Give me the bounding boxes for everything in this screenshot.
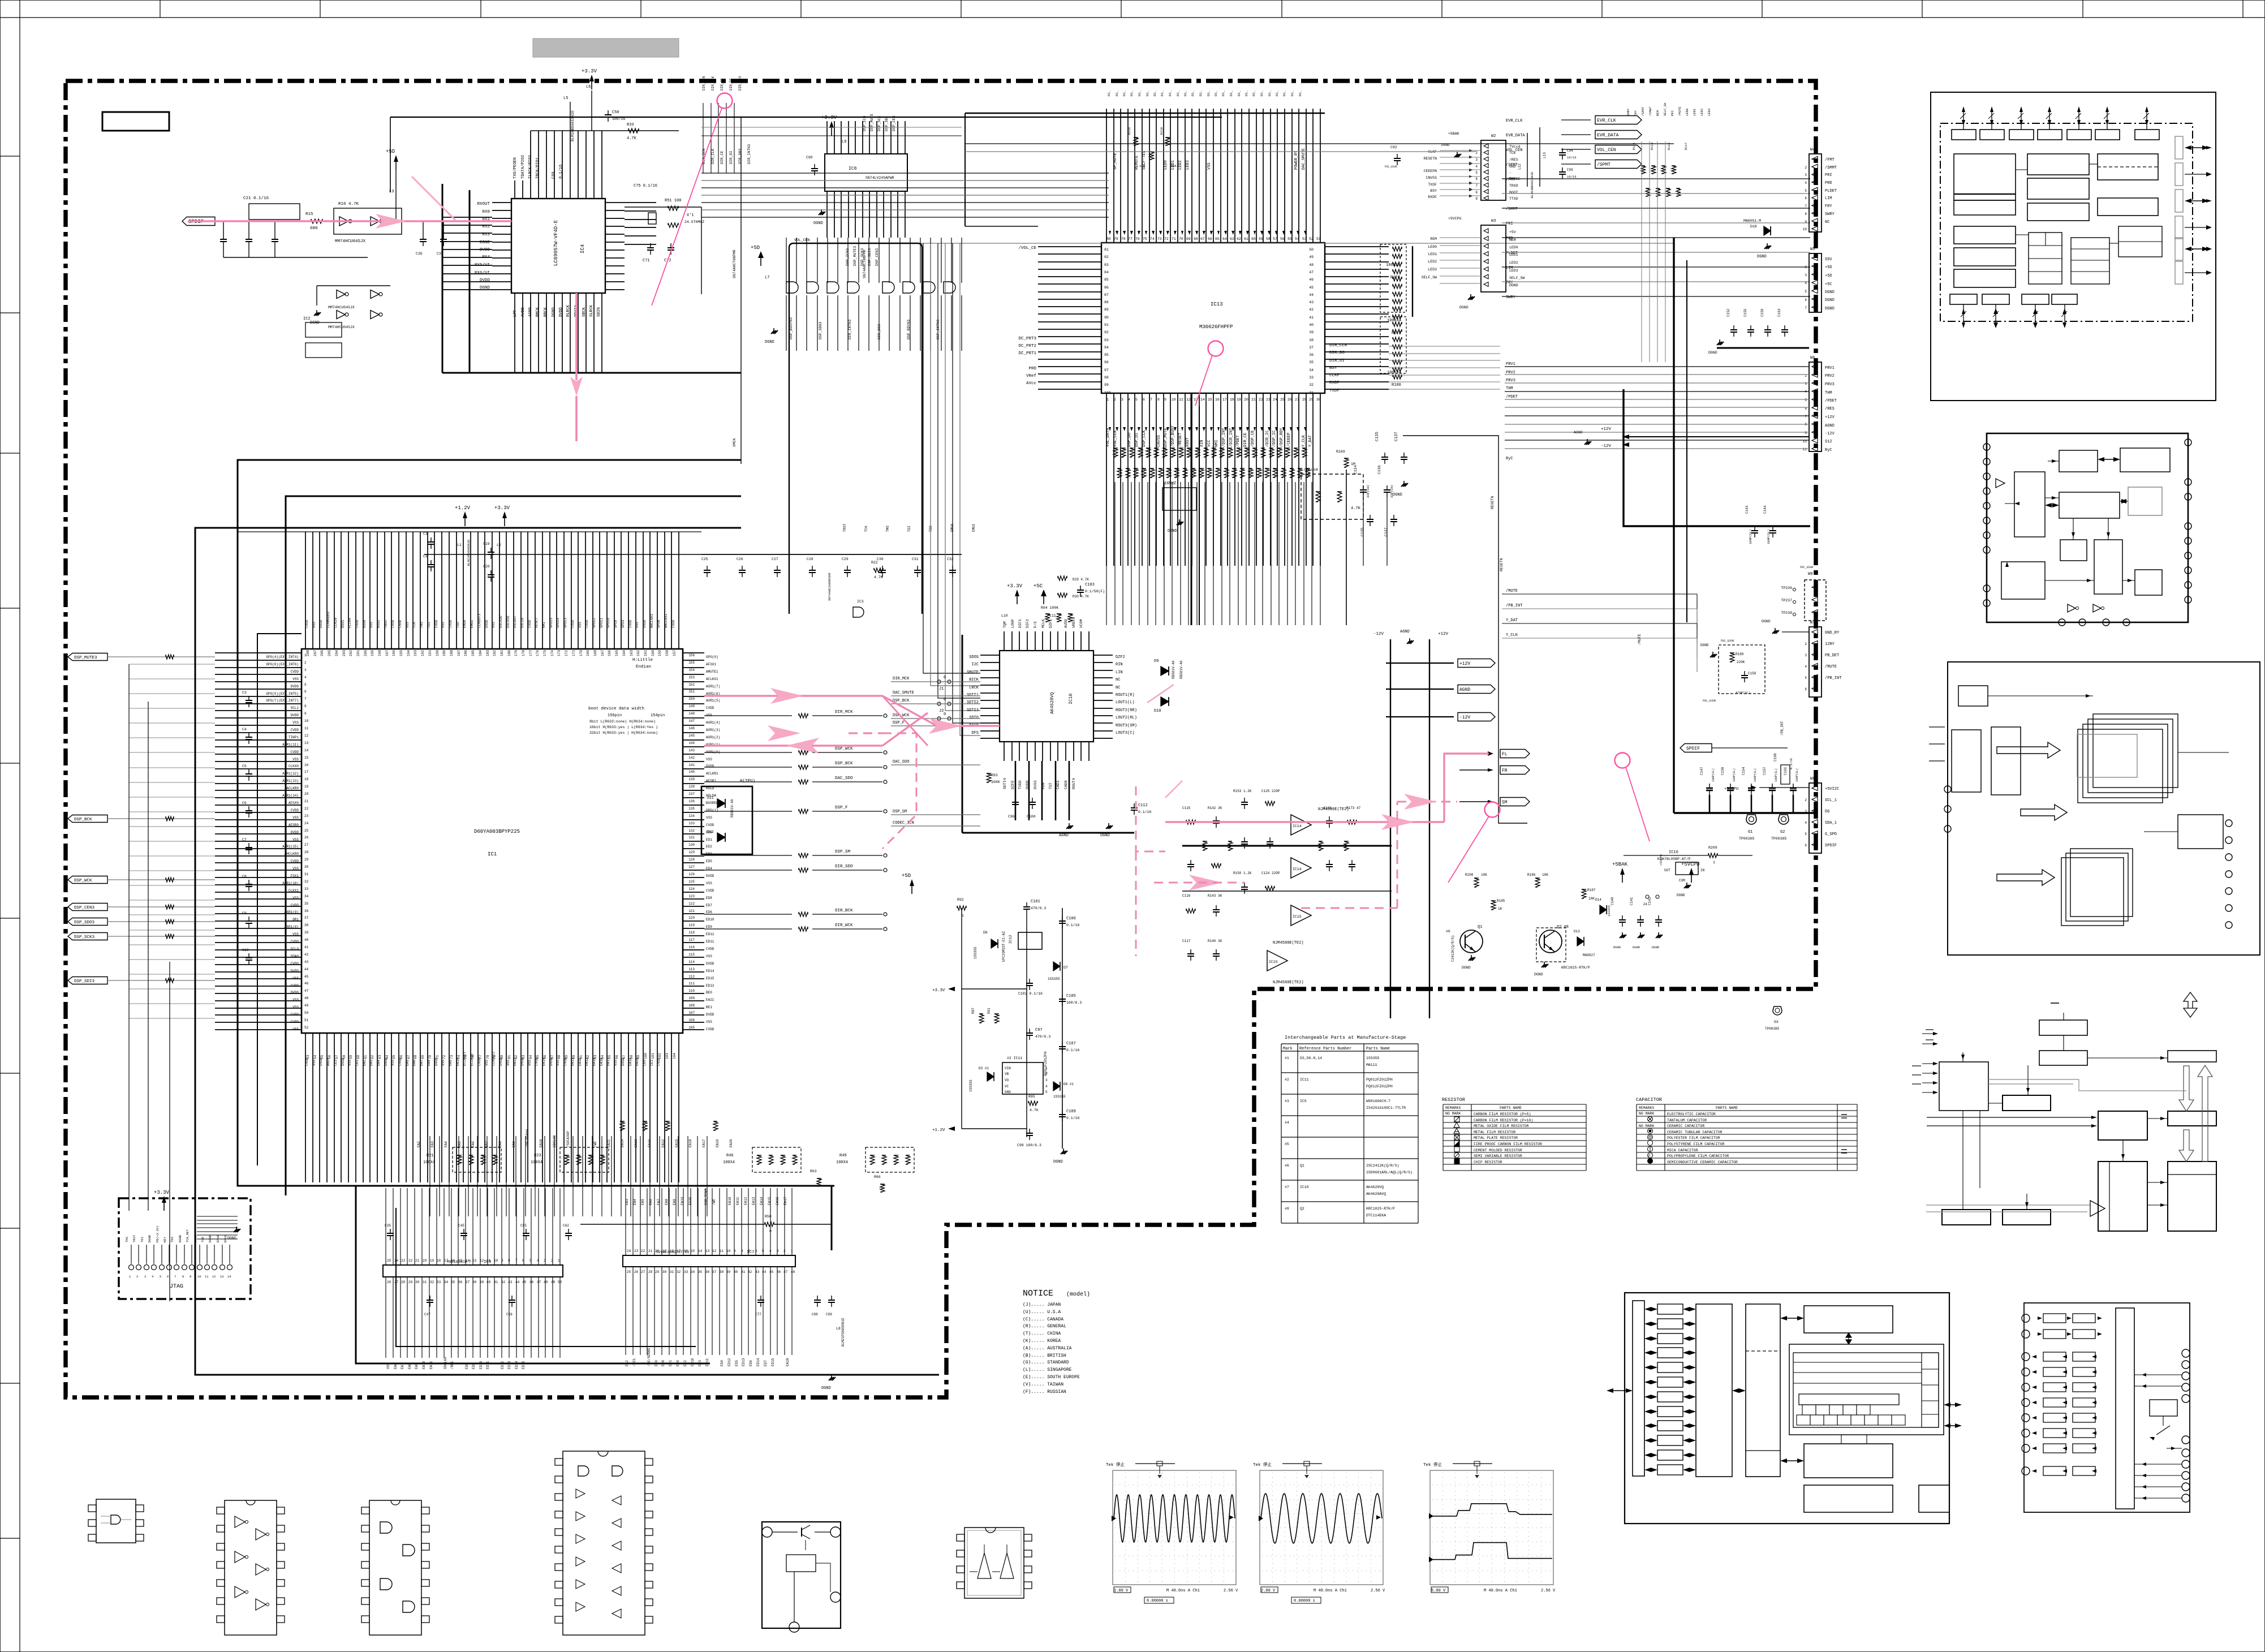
svg-text:/SMMT: /SMMT xyxy=(1506,207,1518,212)
svg-text:TDATA/PIO3: TDATA/PIO3 xyxy=(521,155,526,179)
svg-text:EMU1: EMU1 xyxy=(223,1234,227,1242)
svg-text:109: 109 xyxy=(688,996,695,1000)
svg-text:CLKX0: CLKX0 xyxy=(288,764,299,768)
IC7 combs xyxy=(626,1188,792,1255)
svg-text:178: 178 xyxy=(522,650,526,656)
svg-text:LOUT3(C): LOUT3(C) xyxy=(1116,731,1135,735)
svg-text:NO MARK: NO MARK xyxy=(1639,1112,1654,1116)
svg-text:EA4: EA4 xyxy=(444,1141,448,1147)
svg-text:IC13: IC13 xyxy=(1211,302,1223,307)
svg-text:19: 19 xyxy=(662,1249,667,1253)
svg-text:(L)..... SINGAPORE: (L)..... SINGAPORE xyxy=(1023,1367,1072,1373)
R29 R30 resistors xyxy=(1058,576,1067,580)
svg-text:DSP_SM: DSP_SM xyxy=(893,810,907,814)
svg-text:XIN: XIN xyxy=(1200,440,1204,447)
svg-text:66: 66 xyxy=(1208,237,1212,241)
svg-text:+5C: +5C xyxy=(1825,282,1832,287)
svg-text:10: 10 xyxy=(304,719,309,723)
svg-text:-12V: -12V xyxy=(1459,715,1470,720)
svg-text:77: 77 xyxy=(1128,237,1132,241)
MM74HCU04 boxes far left xyxy=(305,322,342,337)
block5 nested box outer xyxy=(1789,1344,1944,1435)
svg-text:ED5: ED5 xyxy=(706,859,712,863)
svg-text:DIR_OI: DIR_OI xyxy=(1329,359,1345,363)
L3 inductor +5D xyxy=(395,170,397,221)
svg-text:98: 98 xyxy=(1104,376,1109,380)
pink dashed DSP_SM route xyxy=(849,732,882,734)
svg-text:CVDD: CVDD xyxy=(434,619,438,628)
svg-text:EA16: EA16 xyxy=(578,1057,582,1066)
svg-text:11: 11 xyxy=(1179,398,1183,402)
svg-text:/PDET: /PDET xyxy=(1506,395,1518,399)
svg-text:Y_DAT: Y_DAT xyxy=(1308,435,1313,447)
svg-text:GPO11: GPO11 xyxy=(600,618,604,628)
block5 small box column with arrows xyxy=(1657,1304,1683,1314)
svg-text:C28: C28 xyxy=(807,557,813,561)
svg-text:VSS: VSS xyxy=(292,976,299,980)
svg-text:DS_: DS_ xyxy=(1221,90,1225,96)
svg-text:21: 21 xyxy=(1251,398,1256,402)
svg-text:34: 34 xyxy=(304,894,309,898)
svg-text:DS_: DS_ xyxy=(1282,90,1286,96)
svg-text:9: 9 xyxy=(1475,197,1478,201)
svg-text:D18: D18 xyxy=(1750,225,1757,229)
svg-text:DSP_CEN: DSP_CEN xyxy=(892,116,896,131)
svg-text:5: 5 xyxy=(160,1275,161,1279)
svg-text:10/16: 10/16 xyxy=(1567,175,1577,179)
svg-text:#6: #6 xyxy=(1446,930,1450,933)
svg-text:BLM18BD601SN1D: BLM18BD601SN1D xyxy=(571,110,575,141)
svg-text:C45: C45 xyxy=(458,1224,464,1228)
svg-text:3: 3 xyxy=(144,1275,146,1279)
svg-text:Y_CLK: Y_CLK xyxy=(1506,633,1518,638)
svg-text:C3: C3 xyxy=(242,691,247,695)
svg-text:32bit H(R633:yes | H(R634:none: 32bit H(R633:yes | H(R634:none) xyxy=(589,731,658,735)
svg-text:TST: TST xyxy=(1049,782,1053,789)
svg-text:IC12: IC12 xyxy=(1009,935,1013,944)
block2 right pin circles xyxy=(2185,439,2191,446)
IC10 bottom heavy verticals xyxy=(1015,761,1069,820)
svg-text:13: 13 xyxy=(220,1275,224,1279)
svg-text:DGND: DGND xyxy=(1825,290,1835,295)
svg-text:14: 14 xyxy=(227,1275,231,1279)
pink dashed route down-left xyxy=(1136,786,1165,851)
svg-text:3: 3 xyxy=(1805,382,1807,386)
svg-text:21: 21 xyxy=(304,799,309,803)
block5 outer rect xyxy=(1625,1293,1949,1524)
IC1 left terminal flags xyxy=(68,653,107,661)
svg-text:120: 120 xyxy=(688,916,695,920)
svg-text:19: 19 xyxy=(430,1259,434,1263)
svg-text:POLYESTER FILM CAPACITOR: POLYESTER FILM CAPACITOR xyxy=(1667,1136,1720,1140)
svg-text:ROUT4: ROUT4 xyxy=(1072,778,1076,789)
svg-text:TMS: TMS xyxy=(886,526,890,532)
svg-text:#4: #4 xyxy=(1285,1121,1289,1125)
svg-text:DS_: DS_ xyxy=(1207,90,1211,96)
R135 R137 R166 R167 vertical resistors xyxy=(1203,841,1207,842)
svg-text:VSS: VSS xyxy=(292,896,299,900)
block5 nested cell rows xyxy=(1802,1405,1816,1415)
svg-text:SPDIF: SPDIF xyxy=(1825,844,1837,848)
pink DIR_SDO route xyxy=(704,745,882,746)
svg-text:C137: C137 xyxy=(1394,432,1399,441)
block1 dash-dot inner border xyxy=(1940,123,2193,321)
input RC network C13 R11 C21 C22 R15 xyxy=(223,235,224,239)
block5 connective lines xyxy=(1841,1435,1842,1444)
svg-text:EA18: EA18 xyxy=(600,1057,604,1066)
svg-text:CNVSS: CNVSS xyxy=(1426,176,1437,180)
svg-text:128: 128 xyxy=(688,858,695,862)
svg-text:POWER_RY: POWER_RY xyxy=(1294,150,1299,170)
svg-text:47: 47 xyxy=(304,989,309,993)
block5 big bar 1 xyxy=(1696,1304,1732,1477)
svg-text:5: 5 xyxy=(1805,189,1807,193)
svg-text:REMARKS: REMARKS xyxy=(1639,1106,1654,1110)
R111-R117 resistor column xyxy=(1642,165,1645,166)
svg-text:50: 50 xyxy=(304,1011,309,1015)
svg-text:DIR_BCK: DIR_BCK xyxy=(835,909,853,913)
svg-text:43: 43 xyxy=(508,1280,513,1284)
svg-text:MA8027: MA8027 xyxy=(1583,953,1595,957)
svg-text:CVDD: CVDD xyxy=(291,1013,299,1017)
block1 right pin column xyxy=(2175,136,2183,159)
package P2 hex inverter 14pin xyxy=(225,1500,277,1635)
svg-text:3: 3 xyxy=(1805,273,1807,277)
svg-text:DS_: DS_ xyxy=(1252,90,1256,96)
svg-text:PRV2: PRV2 xyxy=(1506,371,1515,375)
svg-text:PRI: PRI xyxy=(1670,110,1674,116)
svg-text:R173 47: R173 47 xyxy=(1346,806,1361,810)
svg-text:72: 72 xyxy=(1164,237,1169,241)
svg-text:/SMWT: /SMWT xyxy=(1648,106,1652,116)
svg-text:0.00000 s: 0.00000 s xyxy=(1147,1599,1168,1603)
svg-text:L5: L5 xyxy=(563,96,568,101)
IC8 top pins xyxy=(827,121,905,154)
block5 tall left bar xyxy=(1633,1301,1644,1476)
svg-text:DIR_MCK: DIR_MCK xyxy=(893,677,910,681)
svg-text:ED10: ED10 xyxy=(706,918,714,922)
svg-text:24: 24 xyxy=(304,821,309,825)
svg-text:DSP_F: DSP_F xyxy=(835,806,848,810)
svg-text:RXDF: RXDF xyxy=(1329,381,1340,385)
svg-text:48: 48 xyxy=(304,996,309,1000)
svg-text:-: - xyxy=(1509,171,1512,175)
svg-text:IC4: IC4 xyxy=(580,244,585,253)
IC13 left comb xyxy=(1038,247,1101,389)
svg-text:DGND: DGND xyxy=(310,321,320,325)
IC10 right pins xyxy=(1093,655,1113,738)
svg-text:DVDD: DVDD xyxy=(291,969,299,973)
svg-text:48: 48 xyxy=(1309,263,1314,267)
svg-text:R113: R113 xyxy=(1650,143,1654,150)
svg-text:70: 70 xyxy=(1179,237,1183,241)
block4 left arrows xyxy=(1922,1033,1936,1034)
svg-text:40: 40 xyxy=(1309,323,1314,327)
IC4 LC89057W body xyxy=(511,199,605,293)
+1.2V +3.3V arrows with chokes above IC1 xyxy=(464,514,466,526)
svg-text:PRV1: PRV1 xyxy=(1825,366,1835,371)
R87 R91 xyxy=(980,1013,983,1014)
svg-text:129: 129 xyxy=(688,850,695,854)
svg-text:5: 5 xyxy=(304,683,307,687)
svg-text:EMU0: EMU0 xyxy=(216,1235,220,1242)
memory bus loop xyxy=(356,1186,832,1250)
svg-text:ED2: ED2 xyxy=(683,1360,687,1366)
svg-text:22: 22 xyxy=(1259,398,1263,402)
svg-text:VSS: VSS xyxy=(292,998,299,1002)
svg-text:VB: VB xyxy=(1005,1072,1009,1076)
svg-text:C131: C131 xyxy=(1324,806,1332,810)
svg-text:CAD0: CAD0 xyxy=(1064,780,1068,789)
svg-text:CVDD: CVDD xyxy=(671,619,675,628)
svg-text:69: 69 xyxy=(421,1055,425,1059)
svg-text:100P(SL): 100P(SL) xyxy=(1749,530,1752,544)
memory area vertical wires from IC1 xyxy=(430,1136,707,1216)
svg-text:GPO(4)(EXT_INT4): GPO(4)(EXT_INT4) xyxy=(266,655,299,659)
svg-text:26: 26 xyxy=(387,1280,391,1284)
svg-text:C20: C20 xyxy=(483,565,490,569)
svg-text:ED3: ED3 xyxy=(698,1360,702,1366)
svg-text:SWRY: SWRY xyxy=(1506,295,1516,300)
svg-text:156: 156 xyxy=(688,653,695,657)
svg-text:7: 7 xyxy=(1805,204,1807,208)
C143 C144 caps xyxy=(1754,526,1755,531)
svg-text:36: 36 xyxy=(705,1270,710,1274)
svg-text:(T)..... CHINA: (T)..... CHINA xyxy=(1023,1331,1061,1336)
svg-text:G2: G2 xyxy=(1780,830,1785,834)
svg-text:0.1/16: 0.1/16 xyxy=(559,165,563,179)
svg-text:DGND: DGND xyxy=(227,1236,236,1240)
svg-text:DC_PRT2: DC_PRT2 xyxy=(1018,344,1036,349)
svg-text:145: 145 xyxy=(688,734,695,738)
svg-text:DS_: DS_ xyxy=(1153,90,1157,96)
svg-text:R93: R93 xyxy=(991,773,998,777)
svg-text:CARBON FILM RESISTOR (P=10): CARBON FILM RESISTOR (P=10) xyxy=(1474,1118,1533,1122)
svg-text:REM: REM xyxy=(1430,237,1437,241)
DIR bus horizontal lines xyxy=(701,173,1109,174)
svg-text:SDTI3: SDTI3 xyxy=(967,708,979,713)
svg-text:37: 37 xyxy=(466,1280,470,1284)
svg-text:MA111: MA111 xyxy=(1366,1063,1377,1067)
XIN VCC bold verticals xyxy=(1191,393,1192,625)
svg-text:8bit L(R633:none) H(R634:none: 8bit L(R633:none) H(R634:none) xyxy=(589,720,656,724)
svg-text:SEMICONDUCTIVE CERAMIC CAPAC: SEMICONDUCTIVE CERAMIC CAPACITOR xyxy=(1667,1160,1738,1164)
svg-text:ED10: ED10 xyxy=(479,1361,483,1369)
svg-text:DIR_SDO: DIR_SDO xyxy=(835,864,853,869)
svg-text:M 40.0ns A Ch1: M 40.0ns A Ch1 xyxy=(1484,1589,1517,1593)
IC5 cap row C35 C45 C55 C62 xyxy=(390,1229,391,1233)
svg-text:37: 37 xyxy=(304,916,309,920)
svg-text:ED12: ED12 xyxy=(727,1358,731,1366)
svg-text:C147: C147 xyxy=(1700,767,1704,775)
svg-text:VSS: VSS xyxy=(292,867,299,871)
svg-text:DIR_CLK: DIR_CLK xyxy=(711,149,715,164)
svg-text:100P(SL): 100P(SL) xyxy=(1754,768,1757,782)
svg-text:REMARKS: REMARKS xyxy=(1445,1106,1461,1110)
svg-text:ED15: ED15 xyxy=(522,1361,526,1369)
svg-text:SP_MUTE: SP_MUTE xyxy=(1113,153,1118,170)
+12V AGND -12V flags xyxy=(1458,659,1495,668)
svg-text:R92: R92 xyxy=(957,898,964,902)
svg-text:DGND: DGND xyxy=(1825,307,1835,311)
svg-text:DS_: DS_ xyxy=(1130,90,1134,96)
D3 diode xyxy=(987,1072,994,1081)
svg-text:34: 34 xyxy=(444,1280,449,1284)
svg-text:AK4628VQ: AK4628VQ xyxy=(1050,692,1055,714)
svg-text:125: 125 xyxy=(688,880,695,884)
svg-text:EA8: EA8 xyxy=(408,1363,412,1369)
svg-text:SMUTE: SMUTE xyxy=(967,670,979,675)
white label box top-left xyxy=(102,112,169,131)
svg-text:27: 27 xyxy=(304,843,309,847)
svg-text:DGND: DGND xyxy=(178,1234,182,1242)
IC4 bottom bus xyxy=(442,372,741,374)
block4 tiny top mark xyxy=(2051,1003,2059,1004)
svg-text:13: 13 xyxy=(705,1249,710,1253)
svg-text:9: 9 xyxy=(304,712,307,716)
svg-text:79: 79 xyxy=(1114,237,1118,241)
svg-text:PRV3: PRV3 xyxy=(1506,378,1515,383)
block4 left dashes xyxy=(1912,1065,1921,1066)
R208 R186 R185 R187 resistors xyxy=(1491,900,1496,901)
svg-text:16: 16 xyxy=(304,763,309,767)
svg-text:RLRCK: RLRCK xyxy=(566,304,571,317)
svg-text:C29: C29 xyxy=(842,557,849,561)
svg-text:2: 2 xyxy=(1114,398,1116,402)
IC4 left pins xyxy=(492,203,511,290)
svg-text:111: 111 xyxy=(688,982,695,986)
svg-text:H(IPU): H(IPU) xyxy=(740,779,755,784)
svg-text:+3.3V: +3.3V xyxy=(494,505,510,511)
IC10 heavy left rail xyxy=(962,635,963,833)
svg-text:R115: R115 xyxy=(1667,143,1671,150)
svg-text:/DSP_CE: /DSP_CE xyxy=(1251,431,1255,447)
svg-text:23: 23 xyxy=(304,814,309,818)
svg-text:C102 0.1/16: C102 0.1/16 xyxy=(1018,992,1043,996)
svg-text:CARBON FILM RESISTOR (P=5): CARBON FILM RESISTOR (P=5) xyxy=(1474,1112,1531,1116)
main dash-dot border xyxy=(66,81,1816,1397)
svg-text:AXR1(9): AXR1(9) xyxy=(285,910,299,914)
svg-text:220K: 220K xyxy=(1737,660,1745,664)
svg-text:29: 29 xyxy=(1309,398,1314,402)
svg-text:4: 4 xyxy=(1475,165,1478,169)
svg-text:DGND: DGND xyxy=(1053,1160,1063,1164)
svg-text:VOL_CLK: VOL_CLK xyxy=(1113,430,1118,447)
svg-text:0: 0 xyxy=(944,676,946,680)
svg-text:47: 47 xyxy=(783,1270,788,1274)
svg-text:EA2: EA2 xyxy=(417,1141,421,1147)
svg-text:EA7: EA7 xyxy=(485,1141,489,1147)
svg-text:200: 200 xyxy=(364,650,368,656)
R33 resistor xyxy=(628,128,639,133)
long top wire xyxy=(390,117,1222,118)
svg-text:7: 7 xyxy=(304,697,307,701)
svg-text:R189: R189 xyxy=(1736,652,1744,656)
svg-text:/SPMT: /SPMT xyxy=(1597,162,1611,167)
svg-text:/PDET: /PDET xyxy=(1236,435,1241,447)
block1 middle column boxes xyxy=(2027,154,2089,175)
svg-text:DS_: DS_ xyxy=(1191,90,1195,96)
svg-text:DSP_CEN3: DSP_CEN3 xyxy=(74,906,95,910)
svg-text:EA18: EA18 xyxy=(786,1358,790,1366)
svg-text:EA3: EA3 xyxy=(625,1199,629,1205)
svg-text:IC15: IC15 xyxy=(1293,915,1302,919)
svg-text:EA11: EA11 xyxy=(607,1139,611,1147)
svg-text:C106: C106 xyxy=(1066,917,1076,921)
C109 xyxy=(1062,1110,1063,1115)
svg-text:71: 71 xyxy=(1172,237,1176,241)
svg-text:D11: D11 xyxy=(707,796,714,800)
svg-text:W9816G6CH-7: W9816G6CH-7 xyxy=(1366,1099,1390,1103)
svg-text:167: 167 xyxy=(601,650,605,656)
svg-text:TRXD: TRXD xyxy=(1509,184,1518,188)
svg-text:11: 11 xyxy=(720,1249,724,1253)
block3 left dash stubs xyxy=(1929,726,1945,728)
svg-text:57: 57 xyxy=(335,1055,339,1059)
package P3 quad AND 14pin xyxy=(369,1500,421,1635)
svg-text:RBCK: RBCK xyxy=(544,307,548,317)
svg-text:DIR_MCK: DIR_MCK xyxy=(835,710,853,715)
svg-text:SDCLK0: SDCLK0 xyxy=(443,1357,447,1369)
svg-text:DC_PRT1: DC_PRT1 xyxy=(1018,351,1036,356)
svg-text:DSP_OI: DSP_OI xyxy=(1135,433,1139,447)
svg-text:+3.3V: +3.3V xyxy=(1007,583,1023,589)
svg-text:91: 91 xyxy=(1104,323,1109,327)
IC10 top pins xyxy=(1004,631,1089,651)
svg-text:CHIP RESISTOR: CHIP RESISTOR xyxy=(1474,1160,1502,1164)
svg-text:22: 22 xyxy=(641,1249,645,1253)
pink callout circle C xyxy=(1485,802,1500,818)
R22 resistor xyxy=(874,568,883,573)
svg-text:R169: R169 xyxy=(1336,450,1345,454)
svg-text:D6: D6 xyxy=(983,931,988,935)
svg-text:20: 20 xyxy=(304,792,309,796)
R50 R63 R66 resistors near IC7 xyxy=(765,1222,774,1227)
svg-text:2: 2 xyxy=(1805,642,1807,646)
svg-text:DIR_CLK: DIR_CLK xyxy=(1329,343,1347,348)
svg-text:TLRCK/PIO2: TLRCK/PIO2 xyxy=(528,155,533,179)
svg-text:4: 4 xyxy=(1805,181,1807,185)
IC1 top pin comb xyxy=(305,631,679,649)
svg-text:C5: C5 xyxy=(242,764,247,768)
+3.3V out xyxy=(962,988,1027,990)
svg-text:ED10: ED10 xyxy=(691,1358,695,1366)
svg-text:TVDD: TVDD xyxy=(1018,780,1022,789)
block3 right box xyxy=(2178,815,2223,849)
svg-text:DSP_MUTE3: DSP_MUTE3 xyxy=(853,246,857,266)
svg-text:160: 160 xyxy=(651,650,655,656)
block3 inner page xyxy=(2077,734,2137,777)
svg-text:C97: C97 xyxy=(1035,1028,1043,1032)
svg-text:ED9: ED9 xyxy=(706,925,712,929)
J4 jumper xyxy=(1646,895,1649,898)
svg-text:56: 56 xyxy=(1280,237,1285,241)
svg-text:86: 86 xyxy=(1104,286,1109,290)
svg-text:LOUT1(L): LOUT1(L) xyxy=(1116,700,1135,705)
svg-text:114: 114 xyxy=(688,960,695,964)
svg-text:W2: W2 xyxy=(1491,134,1496,139)
svg-text:ROUT2(RR): ROUT2(RR) xyxy=(1116,708,1137,713)
IC4 top pins xyxy=(515,180,602,199)
svg-text:33: 33 xyxy=(304,887,309,891)
svg-text:470P(SL): 470P(SL) xyxy=(1736,691,1750,695)
svg-text:163: 163 xyxy=(630,650,634,656)
svg-text:3: 3 xyxy=(1805,173,1807,177)
analog passives cluster xyxy=(1186,820,1195,824)
svg-text:100/6.3: 100/6.3 xyxy=(1066,1001,1082,1005)
svg-text:18: 18 xyxy=(437,1259,441,1263)
svg-text:VSS: VSS xyxy=(1207,162,1212,170)
